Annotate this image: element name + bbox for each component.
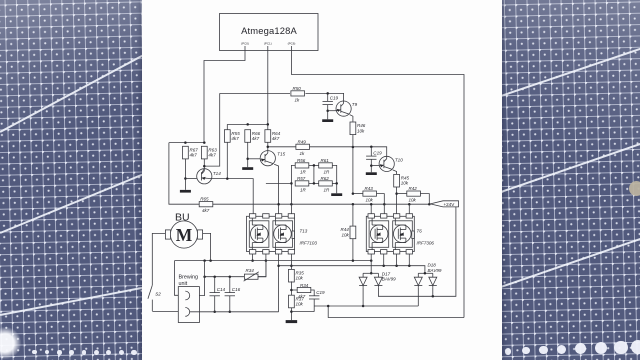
U1 pin label (PC0) (241, 42, 249, 51)
junction C14 top (213, 275, 216, 278)
svg-text:R57: R57 (297, 176, 306, 181)
resistor R64 (265, 130, 281, 143)
svg-text:C19: C19 (330, 96, 339, 101)
wire R43 right to T6 pin2 (377, 194, 385, 214)
resistor R63 (201, 146, 217, 159)
motor M (BU) (165, 212, 202, 249)
svg-text:10k: 10k (341, 232, 349, 237)
wire T15 emitter down to T13 pin3 (274, 164, 278, 214)
junction R66 top (246, 123, 249, 126)
junction mid top (313, 164, 316, 167)
ground below R37 (286, 320, 298, 323)
svg-text:4k7: 4k7 (208, 153, 216, 158)
wire R35 to R37 (290, 281, 292, 295)
wire R62 right stub (332, 182, 336, 184)
wire x220 bus down to T14 collector (204, 93, 219, 166)
svg-text:R34: R34 (246, 268, 255, 273)
svg-text:4k7: 4k7 (231, 136, 239, 141)
svg-text:T9: T9 (352, 102, 358, 107)
junction rail B T6 pin4 (408, 264, 411, 267)
junction R57 left (290, 182, 293, 185)
wire C19c bottom (313, 299, 315, 312)
junction +24V rail at T13 pin3 (277, 203, 280, 206)
wire outer bottom frame (328, 306, 464, 318)
label R43 (365, 186, 374, 202)
wire R34b left (291, 289, 297, 291)
junction rail B T6 pin2 (382, 264, 385, 267)
capacitor C19 (mid) (366, 150, 382, 159)
wire C19c/D17 bottom bus (314, 305, 418, 307)
label R34a (244, 268, 259, 281)
wire R44 bottom (352, 239, 354, 261)
wire motor rail (175, 260, 372, 262)
ground below R67 (180, 190, 191, 193)
junction R55/T14 emitter (226, 177, 229, 180)
junction R34b tap (290, 289, 293, 292)
junction rail A x204.6 (203, 259, 206, 262)
thermistor R34 (sensor) (244, 274, 258, 279)
ground below R62 (331, 193, 342, 196)
label R56 (297, 158, 307, 174)
ground below C19b (366, 172, 377, 175)
wire brew lower out (190, 311, 279, 313)
svg-text:Brewing: Brewing (179, 275, 198, 281)
wire U1 pin2 down to R64 (267, 51, 269, 130)
svg-text:4k7: 4k7 (190, 153, 198, 158)
junction R67 top (184, 141, 187, 144)
wire T10 emitter (371, 165, 379, 167)
resistor R67 (183, 146, 199, 159)
resistor R35 (289, 269, 305, 282)
wire T13 pin1 to motor rail (252, 254, 254, 261)
wire T9 emitter (328, 110, 337, 112)
svg-text:IRF7306: IRF7306 (417, 240, 435, 245)
junction T14 collector node (203, 165, 206, 168)
wire R64 bottom to T15 (267, 143, 269, 152)
junction R37 bottom (290, 310, 293, 313)
resistor R43 (363, 191, 377, 196)
wire heater right up (190, 261, 205, 296)
svg-text:Atmega128A: Atmega128A (241, 25, 297, 36)
svg-text:1k: 1k (295, 97, 301, 102)
svg-text:C16: C16 (232, 287, 241, 292)
U1 pin label (PC1) (264, 42, 272, 51)
wire T15 base (248, 158, 261, 160)
junction T15 base node (246, 158, 249, 161)
junction T10 emitter node (370, 164, 373, 167)
svg-text:+24V: +24V (444, 202, 456, 207)
capacitor C19 (bottom) (309, 290, 325, 299)
wire T6 pin2 bottom (383, 254, 385, 266)
svg-text:unit: unit (179, 281, 188, 287)
resistor R44 (340, 226, 355, 239)
wire R42 left (397, 193, 407, 195)
IC U1 Atmega128A box (220, 14, 319, 51)
junction rail C x204.6 (203, 275, 206, 278)
svg-text:10k: 10k (296, 276, 304, 281)
junction D18 right bottom (432, 295, 435, 298)
wire C19b to ground (370, 159, 372, 172)
transistor T10 (379, 156, 403, 171)
wire R56-R61 mid (309, 164, 319, 166)
wire R63 bottom (203, 159, 205, 169)
MOSFET array T6 IRF7306 (366, 214, 434, 254)
wire rail A left corner to brew (175, 261, 186, 296)
svg-text:R61: R61 (321, 158, 330, 163)
wire R49 to T10 base (309, 147, 386, 156)
label R62 (321, 176, 331, 192)
wire R44 top (352, 204, 354, 226)
wire R61/R62 right to ground (332, 165, 336, 193)
wire T14 emitter to T13 pin1 (212, 179, 253, 214)
resistor R62 (319, 181, 333, 186)
wire R55 bottom (226, 143, 228, 179)
svg-text:R42: R42 (409, 186, 418, 191)
wire R45 down to T6 pin3 (396, 187, 398, 214)
svg-text:(PC0): (PC0) (241, 42, 249, 46)
wire T10 collector to R45 (393, 170, 397, 175)
svg-text:S2: S2 (155, 292, 161, 297)
junction outer frame tap (327, 305, 330, 308)
wire T14 base (185, 178, 196, 180)
svg-text:C19: C19 (373, 150, 382, 155)
junction D17 left bottom (362, 305, 365, 308)
wire T6 pin1 bottom to D17 (370, 254, 372, 273)
transistor T9 (336, 101, 358, 116)
resistor R66 (245, 130, 261, 143)
wire 4k7 rail (227, 123, 267, 125)
junction rail A R44 (352, 259, 355, 262)
junction +24V rail at T13 pin4 (290, 203, 293, 206)
junction motor rail pin1 (251, 259, 254, 262)
resistor R49 (296, 144, 310, 149)
wire motor left to S2 (152, 233, 165, 285)
svg-text:(PC6): (PC6) (288, 42, 296, 46)
svg-text:M: M (176, 225, 193, 245)
junction +24V rail at T6 pin4 (408, 203, 411, 206)
svg-text:BAV99: BAV99 (428, 268, 442, 273)
wire R66 bottom to ground (247, 143, 249, 168)
junction R46/R49 rail crossing (352, 146, 355, 149)
wire R55 top stub (226, 124, 228, 129)
wire R34b right to C19c (311, 290, 314, 296)
svg-text:T6: T6 (417, 229, 423, 234)
svg-text:(PC1): (PC1) (264, 42, 272, 46)
resistor R55 (224, 130, 240, 143)
svg-text:1R: 1R (324, 169, 331, 174)
svg-text:D17: D17 (382, 271, 391, 276)
wire C16 bottom (229, 296, 231, 312)
resistor R42 (407, 191, 421, 196)
wire R42 right corner (420, 194, 429, 205)
wire R37 bottom to ground (290, 308, 292, 321)
diode D17 BAV99 (359, 271, 396, 287)
label R57 (297, 176, 307, 192)
wire C14 top (214, 277, 216, 293)
transistor T15 (260, 151, 285, 166)
junction +24V rail at T6 pin2 (383, 203, 386, 206)
junction C19a top (326, 92, 329, 95)
wire R67 bottom to ground (184, 159, 186, 190)
junction R43 left (352, 192, 355, 195)
junction R63 top / pin1 bus (203, 141, 206, 144)
wire T13 pin2 to R57 (266, 182, 292, 184)
junction R45/R42 (395, 192, 398, 195)
wire +24V rail (213, 203, 429, 205)
svg-text:4k7: 4k7 (272, 136, 280, 141)
wire T15 collector node to R49 (268, 146, 296, 148)
wire motor right tab loop (203, 233, 211, 260)
wire C16 top (229, 277, 231, 293)
svg-text:10k: 10k (409, 198, 417, 203)
ground below C19a (322, 119, 333, 122)
junction D18 top (424, 272, 427, 275)
resistor R37 (289, 295, 305, 308)
svg-text:10k: 10k (357, 128, 365, 133)
junction motor rail pin2 (265, 259, 268, 262)
wire R43 left (353, 193, 363, 195)
label R49 (298, 139, 307, 155)
resistor R61 (319, 163, 333, 168)
svg-text:R34: R34 (300, 283, 309, 288)
resistor R57 (295, 181, 309, 186)
wire D18 right bottom stub (432, 288, 434, 297)
wire R46 down to R43 node (352, 135, 354, 194)
power flag +24V (430, 201, 458, 207)
wire C19a to ground (327, 105, 329, 120)
svg-text:R56: R56 (297, 158, 306, 163)
junction R64/T15/R49 (267, 146, 270, 149)
label R34b (298, 283, 309, 299)
resistor R56 (295, 163, 309, 168)
wire R67/R63 top rail (169, 142, 204, 144)
svg-text:IRF7103: IRF7103 (300, 240, 318, 245)
wire mid vertical (313, 165, 315, 183)
svg-text:4k7: 4k7 (252, 136, 260, 141)
resistor R65 (199, 202, 213, 207)
junction T14 base node (184, 177, 187, 180)
svg-text:R62: R62 (321, 176, 330, 181)
resistor R50 (291, 91, 305, 96)
svg-text:10k: 10k (401, 181, 409, 186)
svg-text:R50: R50 (293, 86, 302, 91)
junction rail A motor tab (209, 259, 212, 262)
wire T13 pin2 to R34 corner (257, 254, 266, 277)
junction D17 top (370, 272, 373, 275)
svg-text:1R: 1R (300, 169, 307, 174)
junction C16 bottom (229, 311, 232, 314)
wire T6 pin4 bottom (408, 254, 410, 266)
svg-text:T14: T14 (213, 171, 221, 176)
svg-text:R65: R65 (200, 197, 209, 202)
svg-text:C14: C14 (217, 287, 226, 292)
resistor R34 (4k7) (297, 287, 311, 292)
brewing unit box (178, 275, 199, 323)
wire R34a right corner up (258, 261, 266, 277)
junction rail B pin3 (277, 264, 280, 267)
svg-text:1k: 1k (300, 151, 306, 156)
label R50 (293, 86, 302, 102)
switch S2 (148, 285, 161, 311)
wire C14 bottom (214, 296, 216, 312)
svg-text:10k: 10k (296, 302, 304, 307)
capacitor C14 (210, 287, 226, 296)
junction mid bottom (313, 182, 316, 185)
wire C19a top stub (327, 93, 329, 101)
svg-text:1R: 1R (324, 187, 331, 192)
wire T13 pin3 down to brew wire (278, 254, 280, 312)
junction R64 top / pin2 (267, 123, 270, 126)
wire U1 pin3 to right frame (292, 51, 465, 318)
wire U1 pin1 to left bus (204, 51, 245, 143)
wire left frame down (169, 143, 199, 205)
label R65 (200, 197, 210, 214)
wire R34a left rail (205, 276, 245, 278)
svg-text:R43: R43 (365, 186, 374, 191)
capacitor C19 (top) (323, 96, 339, 105)
label R61 (321, 158, 331, 174)
wire R50 to T9 base (306, 93, 344, 101)
junction +24V rail at R42 corner (428, 203, 431, 206)
svg-text:T13: T13 (300, 229, 308, 234)
U1 pin label (PC6) (288, 42, 296, 51)
MOSFET array T13 IRF7103 (247, 214, 318, 254)
svg-text:1R: 1R (300, 187, 307, 192)
resistor R45 (394, 174, 410, 187)
junction C14 bottom (213, 311, 216, 314)
wire T6 pin1 top (370, 204, 372, 214)
wire source rail B (279, 266, 425, 274)
junction rail B T6 pin3 (395, 264, 398, 267)
wire T13 pin4 down to R35 (290, 254, 292, 270)
wire D18 left bottom (417, 288, 419, 306)
wire C19b top stub (370, 147, 372, 156)
junction rail A T6 pin1 (370, 259, 373, 262)
junction +24V rail T6 pin1 (370, 203, 373, 206)
ground below R66 (242, 167, 253, 170)
junction R62 right (335, 182, 338, 185)
svg-text:T10: T10 (395, 157, 403, 162)
junction +24V rail at R44 top (352, 203, 355, 206)
wire T6 pin3 bottom (396, 254, 398, 266)
label R42 (409, 186, 418, 202)
wire D17 left bottom (362, 288, 364, 306)
wire D17 right bottom to D18 right (378, 207, 456, 296)
capacitor C16 (225, 287, 241, 296)
wire R50 rail left (220, 92, 290, 94)
junction C16 top (229, 275, 232, 278)
wire S2 to brew lower (152, 311, 185, 313)
wire R56 left drop (291, 165, 295, 213)
wire T9 collector to R46 (350, 115, 353, 122)
wire R37/C19c link (291, 311, 314, 313)
svg-text:BAV99: BAV99 (382, 277, 396, 282)
wire T6 pin4 top (408, 204, 410, 214)
svg-text:R49: R49 (298, 139, 307, 144)
wire R57-R62 mid (309, 182, 319, 184)
resistor R46 (350, 122, 366, 135)
transistor T14 (197, 169, 222, 184)
junction rail B pin4 (290, 264, 293, 267)
svg-text:C19: C19 (316, 290, 325, 295)
svg-text:4k7: 4k7 (202, 208, 210, 213)
junction C19b top (370, 146, 373, 149)
svg-text:10k: 10k (366, 198, 374, 203)
diode D18 BAV99 (414, 263, 442, 288)
svg-text:D18: D18 (428, 263, 437, 268)
junction T9 emitter node (326, 109, 329, 112)
svg-text:T15: T15 (277, 152, 285, 157)
